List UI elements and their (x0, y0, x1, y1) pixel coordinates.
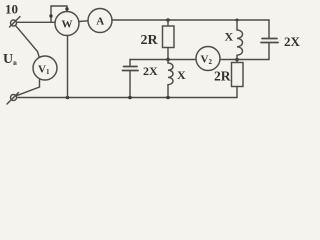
ammeter A (88, 9, 112, 33)
node between 2R and X (166, 58, 170, 62)
inductor X right (237, 20, 243, 60)
resistor 2R right (236, 60, 238, 63)
capacitor 2X middle (129, 60, 131, 67)
mid rail wire right (220, 59, 269, 61)
wattmeter W (55, 12, 79, 36)
svg-text:W: W (62, 19, 73, 31)
input terminal top (11, 20, 17, 26)
inductor X middle (168, 60, 173, 98)
svg-text:2R: 2R (141, 33, 159, 48)
voltmeter V1 (33, 56, 57, 80)
node inductor branch (166, 96, 170, 100)
node W voltage lead (66, 96, 70, 100)
svg-text:2X: 2X (284, 34, 300, 49)
input terminal bottom (11, 95, 17, 101)
wire terminal to voltmeter V1 (16, 26, 39, 57)
node at top of middle resistor (166, 18, 170, 22)
wire V1 to bottom terminal (17, 79, 40, 95)
node at top of right inductor (236, 19, 239, 22)
bottom rail wire (17, 97, 238, 99)
node capacitor branch (128, 96, 132, 100)
label 10 (5, 2, 18, 17)
voltmeter V2 (196, 47, 220, 71)
svg-text:X: X (177, 68, 186, 82)
polarity dot right (65, 7, 68, 10)
svg-text:A: A (96, 16, 104, 28)
svg-text:X: X (225, 30, 234, 44)
svg-text:2R: 2R (214, 69, 231, 84)
wire W to A (79, 20, 88, 23)
wattmeter current-coil loop (51, 6, 67, 22)
circuit schematic figure 10 (0, 0, 300, 111)
mid rail wire left (130, 59, 196, 61)
capacitor 2X right (268, 20, 270, 38)
svg-text:10: 10 (5, 2, 18, 17)
node at top of right resistor (235, 58, 239, 62)
wattmeter voltage lead (67, 36, 69, 98)
polarity dot left (49, 14, 52, 17)
top rail wire (112, 19, 269, 21)
wire terminal to wattmeter (17, 21, 57, 23)
svg-text:2X: 2X (143, 64, 158, 78)
resistor 2R middle (167, 20, 169, 26)
source label Ub (3, 52, 17, 67)
